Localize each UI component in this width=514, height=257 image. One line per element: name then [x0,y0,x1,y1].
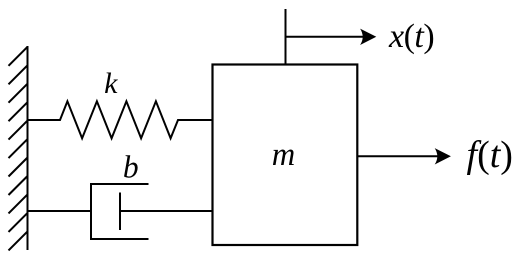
wire piston to mass [120,210,213,212]
svg-text:x(t): x(t) [388,18,434,55]
wall [27,46,29,250]
mass m box [213,65,358,246]
arrow f(t) shaft [357,155,437,157]
svg-text:k: k [104,67,118,100]
arrow x(t) shaft [286,36,364,38]
svg-text:m: m [272,137,295,173]
spring k [28,101,213,138]
damper piston [119,193,121,231]
arrowhead f(t) [435,148,451,164]
wire wall to damper [28,210,92,212]
arrowhead x(t) [360,29,376,45]
wall hatching [9,47,28,251]
svg-text:f(t): f(t) [467,134,513,176]
displacement reference stem [285,9,287,65]
svg-text:b: b [123,149,139,184]
damper b cylinder [91,184,149,239]
